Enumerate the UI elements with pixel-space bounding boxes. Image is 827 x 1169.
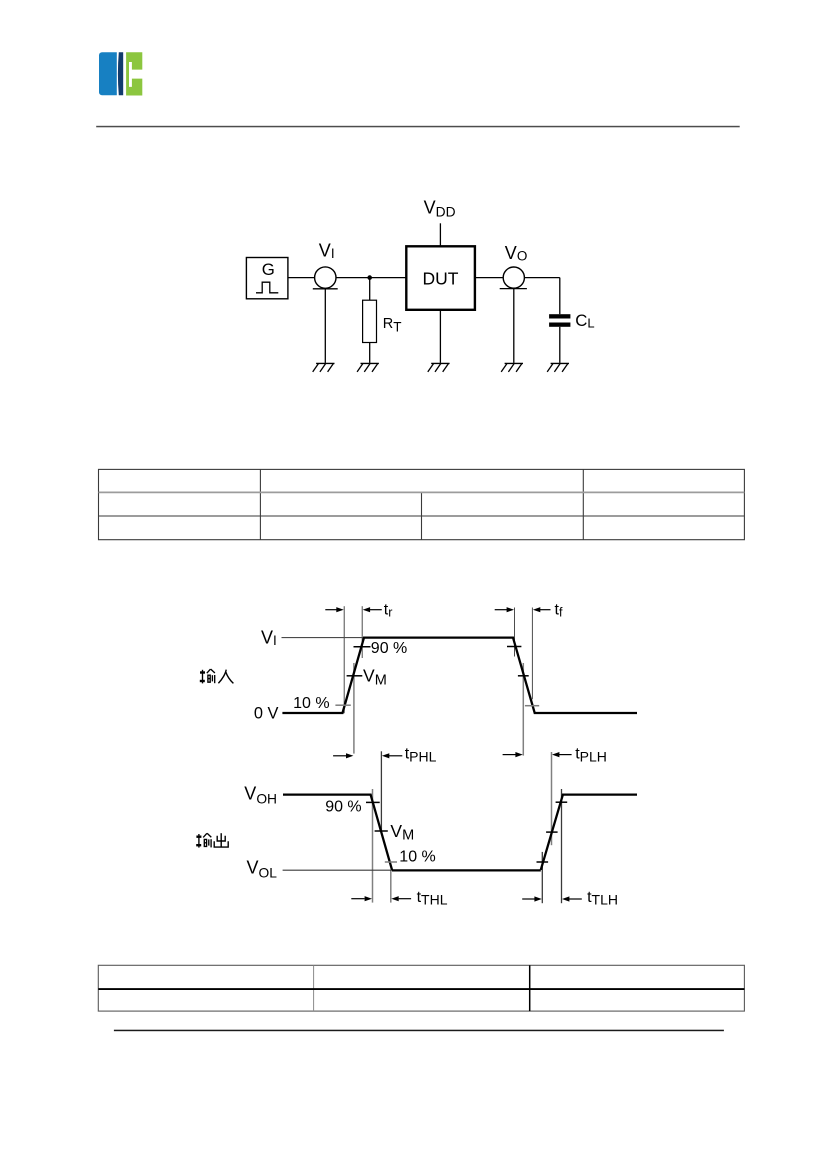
svg-text:VM: VM <box>390 821 414 844</box>
svg-text:tPLH: tPLH <box>575 746 607 765</box>
svg-text:VOL: VOL <box>247 858 278 881</box>
svg-text:RT: RT <box>383 316 402 334</box>
svg-text:VI: VI <box>319 240 335 261</box>
svg-text:VM: VM <box>363 666 387 689</box>
svg-text:VOH: VOH <box>244 784 277 807</box>
svg-text:tTLH: tTLH <box>587 889 618 908</box>
svg-text:10 %: 10 % <box>293 695 329 712</box>
svg-text:G: G <box>262 260 275 279</box>
svg-text:90 %: 90 % <box>371 640 407 657</box>
svg-text:CL: CL <box>575 311 594 331</box>
svg-text:10 %: 10 % <box>399 848 435 865</box>
svg-text:tf: tf <box>555 602 563 620</box>
svg-text:tPHL: tPHL <box>405 746 437 765</box>
svg-text:VI: VI <box>261 627 277 648</box>
svg-text:VDD: VDD <box>424 197 456 219</box>
svg-text:VO: VO <box>505 243 528 264</box>
svg-text:DUT: DUT <box>423 268 459 288</box>
svg-text:tTHL: tTHL <box>417 889 448 908</box>
svg-text:90 %: 90 % <box>325 799 361 816</box>
svg-text:tr: tr <box>384 602 393 620</box>
svg-text:0 V: 0 V <box>254 704 279 722</box>
